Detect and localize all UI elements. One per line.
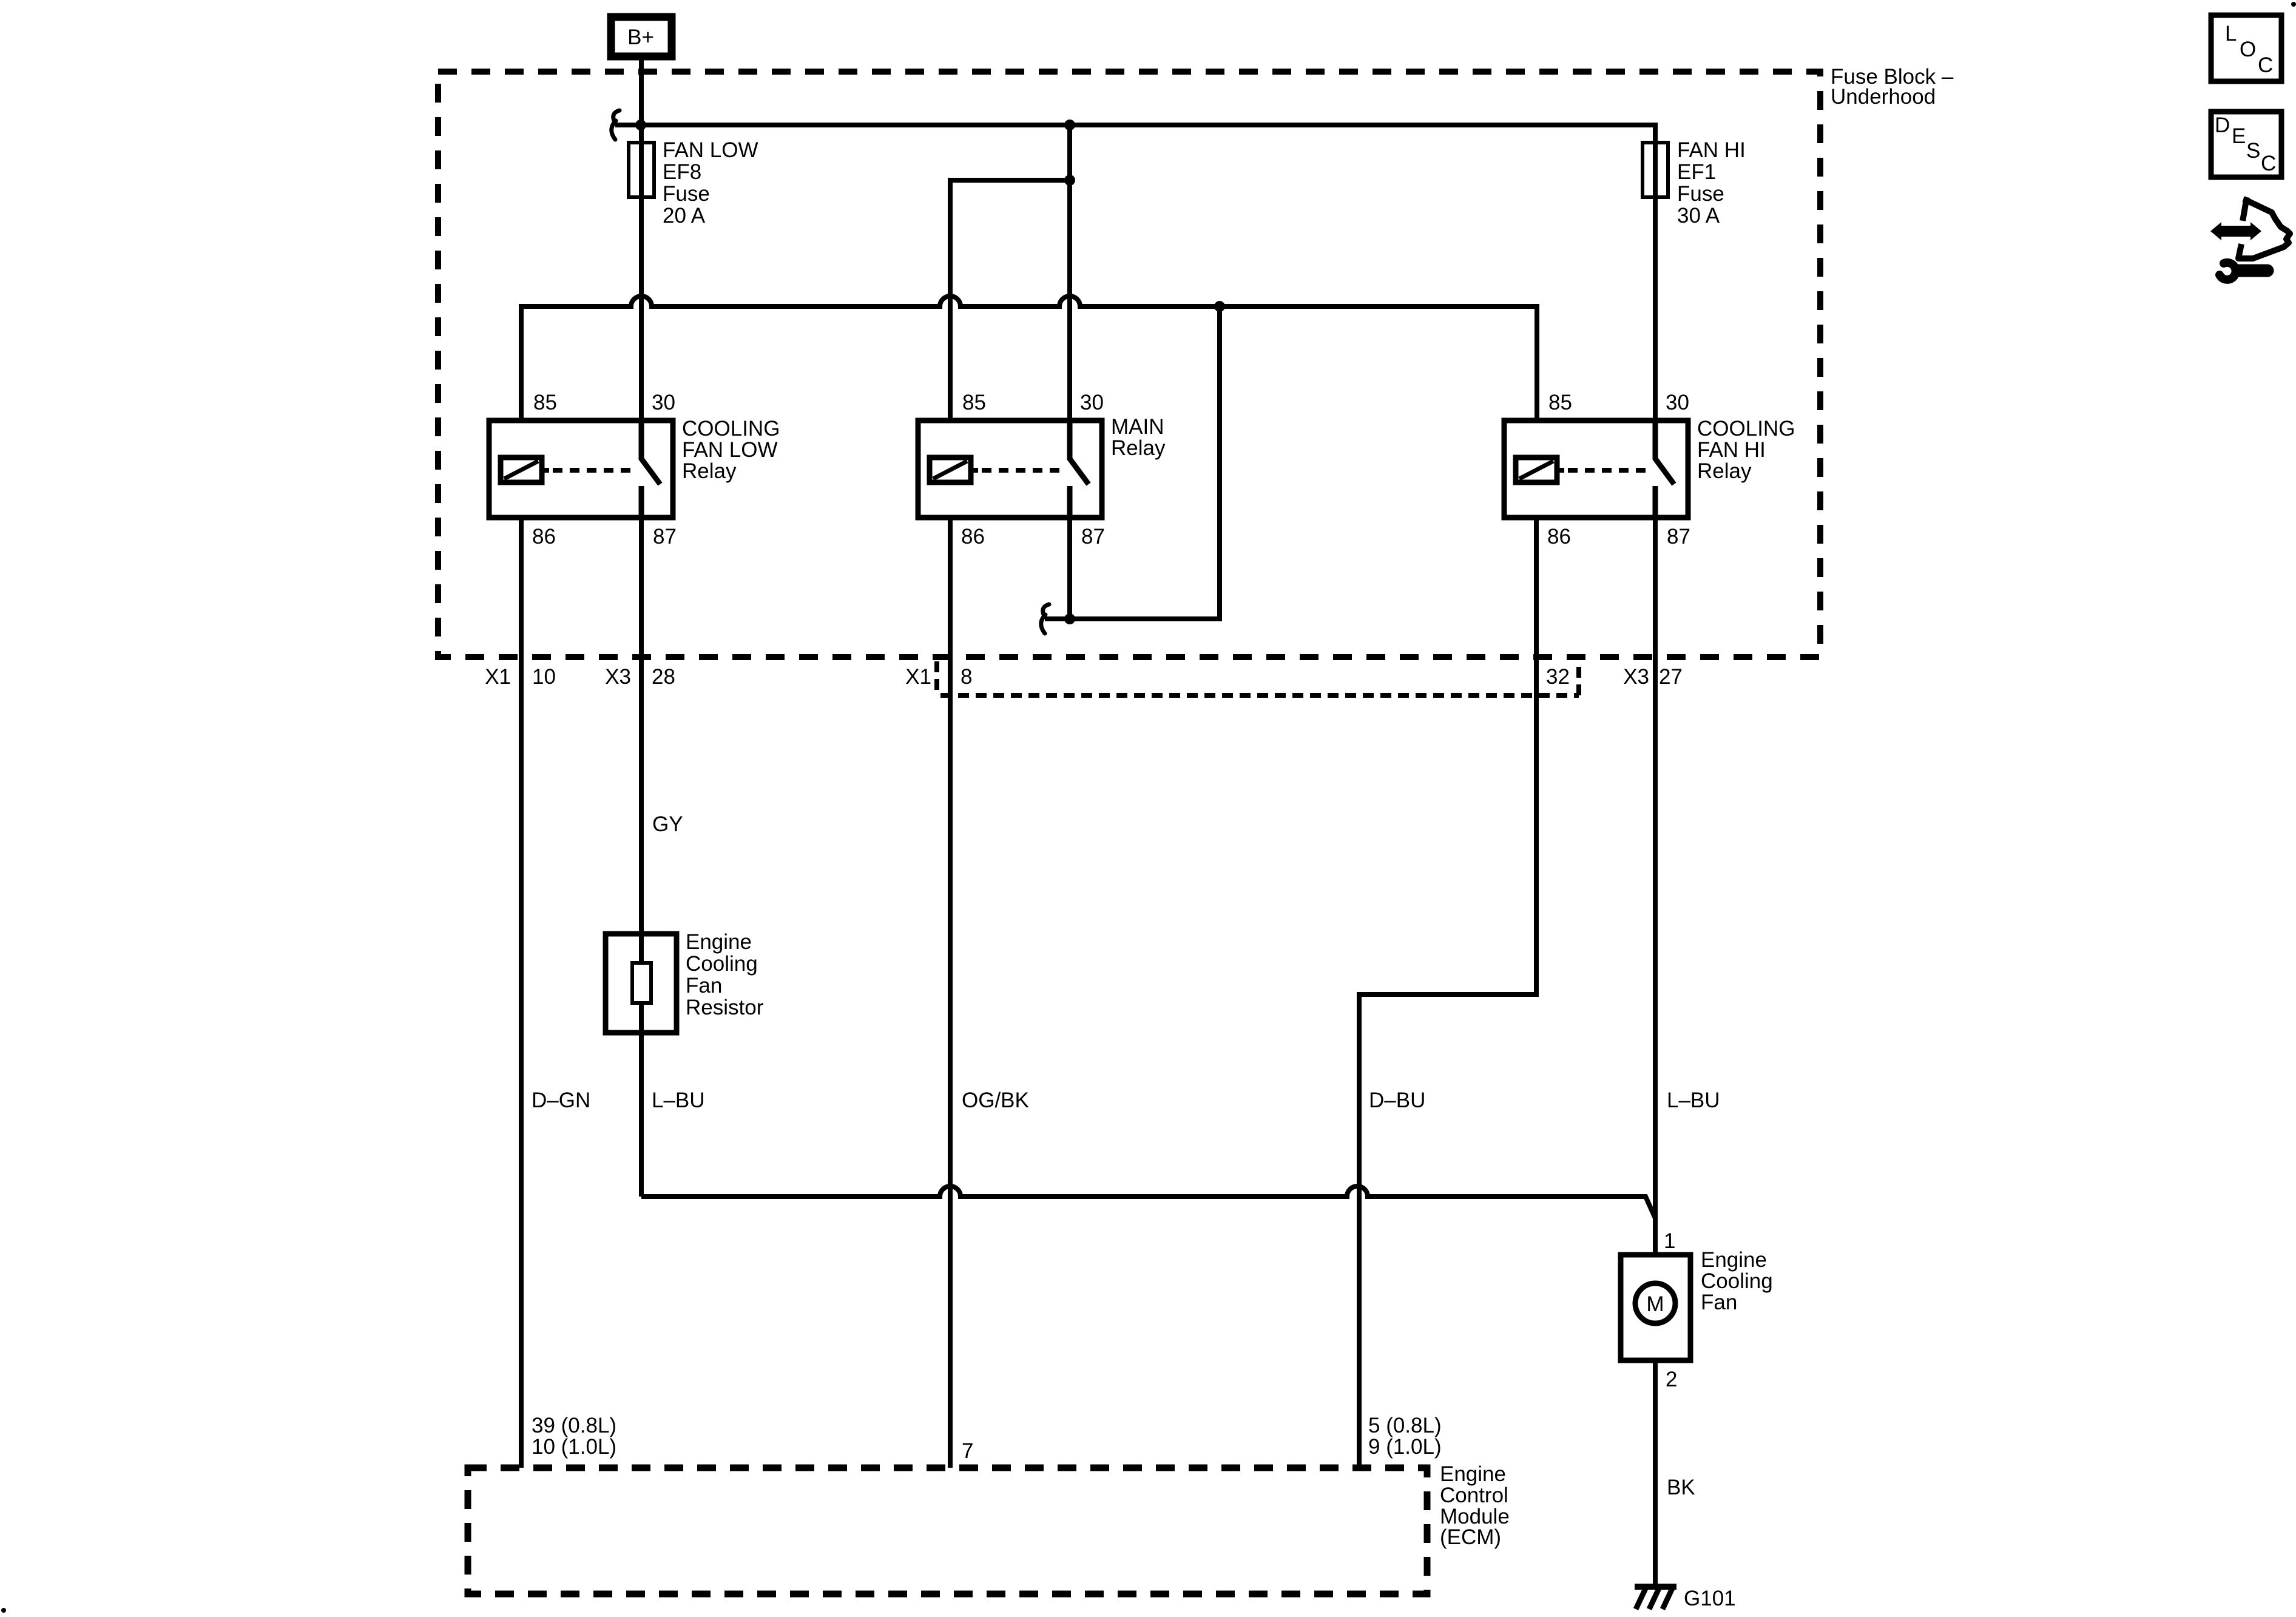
svg-text:Relay: Relay — [1111, 436, 1166, 460]
svg-text:32: 32 — [1546, 665, 1570, 689]
svg-text:86: 86 — [961, 525, 985, 549]
svg-text:Relay: Relay — [682, 459, 737, 483]
wire: B+ down to relay 30 (through fuse EF8) — [639, 60, 644, 420]
svg-text:39 (0.8L): 39 (0.8L) — [532, 1414, 616, 1437]
relay main: coil-to-switch dashed link — [982, 468, 1062, 473]
svg-text:Cooling: Cooling — [1701, 1269, 1773, 1293]
svg-text:X3: X3 — [1623, 665, 1649, 689]
wire: main relay 30 drop from top bus — [1067, 125, 1072, 420]
svg-text:X3: X3 — [605, 665, 631, 689]
node: junction coil bus / main 87 riser — [1214, 301, 1225, 312]
wire: hi relay 87 to fan motor pin 1 (L-BU) — [1653, 518, 1658, 1255]
svg-text:L–BU: L–BU — [652, 1089, 705, 1112]
fuse FAN LOW EF8 20A — [629, 143, 654, 197]
speck artifact top right — [2291, 2, 2296, 7]
connector curl at main 87 junction — [1043, 604, 1049, 615]
node: junction main 87 / stub — [1064, 613, 1075, 624]
node: junction B+ / top bus — [635, 120, 646, 130]
svg-text:Fuse: Fuse — [1677, 182, 1724, 206]
relay cooling fan low: coil-to-switch dashed link — [553, 468, 634, 473]
svg-text:FAN HI: FAN HI — [1677, 138, 1746, 162]
svg-text:GY: GY — [652, 812, 683, 836]
relay cooling fan hi: box — [1504, 420, 1688, 518]
svg-text:D: D — [2215, 113, 2230, 137]
svg-text:27: 27 — [1659, 665, 1683, 689]
svg-text:87: 87 — [1667, 525, 1690, 549]
wire: low relay 87 down to resistor (GY) — [639, 518, 644, 934]
svg-text:87: 87 — [653, 525, 677, 549]
Engine Control Module dashed box — [468, 1468, 1427, 1594]
svg-text:86: 86 — [532, 525, 556, 549]
svg-text:X1: X1 — [485, 665, 511, 689]
svg-text:BK: BK — [1667, 1476, 1695, 1499]
svg-text:EF1: EF1 — [1677, 160, 1716, 184]
wire: low relay 86 to ECM (D-GN) — [519, 518, 524, 1468]
svg-text:86: 86 — [1547, 525, 1571, 549]
relay cooling fan low: box — [489, 420, 673, 518]
wire: main relay 85 riser tied to pin 30 wire — [950, 180, 1070, 420]
svg-text:C: C — [2258, 53, 2273, 77]
svg-text:30: 30 — [1666, 391, 1689, 414]
connector curl at top bus left end — [613, 110, 620, 121]
connector X1 dashed bracket — [934, 661, 939, 695]
relay main: box — [918, 420, 1102, 518]
svg-text:8: 8 — [961, 665, 972, 689]
relay cooling fan hi: switch arm (pin 30 to 87) — [1655, 420, 1674, 484]
svg-text:30 A: 30 A — [1677, 204, 1720, 228]
svg-text:X1: X1 — [905, 665, 931, 689]
svg-text:D–BU: D–BU — [1369, 1089, 1425, 1112]
svg-text:30: 30 — [652, 391, 675, 414]
svg-text:FAN HI: FAN HI — [1697, 438, 1766, 462]
DESC icon box — [2211, 112, 2281, 177]
ground symbol G101 — [1635, 1584, 1676, 1590]
svg-text:10: 10 — [532, 665, 556, 689]
svg-text:Engine: Engine — [1440, 1462, 1506, 1486]
relay cooling fan hi: coil-to-switch dashed link — [1568, 468, 1648, 473]
LOC icon box — [2211, 15, 2281, 81]
wire: top bus from B+ junction to FAN HI fuse — [615, 125, 1655, 420]
svg-text:M: M — [1646, 1292, 1664, 1316]
svg-text:Fan: Fan — [686, 974, 722, 998]
wire: hi relay 86 jog to ECM (D-BU) — [1359, 518, 1536, 1468]
wire: motor pin 2 to ground G101 (BK) — [1653, 1360, 1658, 1584]
svg-text:Fuse: Fuse — [663, 182, 710, 206]
speck artifact bottom left — [1, 1608, 6, 1613]
svg-text:FAN LOW: FAN LOW — [682, 438, 778, 462]
svg-text:EF8: EF8 — [663, 160, 701, 184]
wire: stub to connector curl at main 87 junction — [1045, 616, 1070, 621]
svg-text:O: O — [2240, 38, 2256, 61]
relay main: switch arm (pin 30 to 87) — [1070, 420, 1089, 484]
svg-text:Underhood: Underhood — [1831, 85, 1936, 109]
svg-text:7: 7 — [962, 1439, 973, 1463]
svg-text:G101: G101 — [1684, 1587, 1736, 1610]
double-arrow / part silhouette / wrench icon — [2210, 222, 2261, 240]
svg-text:Cooling: Cooling — [686, 952, 758, 976]
svg-text:10 (1.0L): 10 (1.0L) — [532, 1435, 616, 1459]
svg-text:D–GN: D–GN — [532, 1089, 590, 1112]
engine cooling fan resistor — [606, 934, 677, 1033]
svg-text:B+: B+ — [627, 25, 654, 49]
svg-text:5 (0.8L): 5 (0.8L) — [1368, 1414, 1442, 1437]
svg-text:9 (1.0L): 9 (1.0L) — [1368, 1435, 1442, 1459]
svg-text:Engine: Engine — [1701, 1248, 1767, 1272]
wire: coil bus from low relay 85 to hi relay 85 with hops — [521, 296, 1537, 420]
svg-text:Engine: Engine — [686, 930, 752, 954]
svg-text:28: 28 — [652, 665, 675, 689]
svg-text:COOLING: COOLING — [682, 417, 780, 441]
svg-text:85: 85 — [1548, 391, 1572, 414]
svg-text:20 A: 20 A — [663, 204, 706, 228]
svg-text:Relay: Relay — [1697, 459, 1752, 483]
node: junction wire B / main 30 wire — [1064, 175, 1075, 186]
svg-text:Fan: Fan — [1701, 1291, 1737, 1314]
svg-text:2: 2 — [1666, 1368, 1677, 1391]
wire: main relay 86 to ECM pin 7 (OG/BK) — [948, 518, 953, 1468]
svg-text:MAIN: MAIN — [1111, 415, 1164, 439]
fuse FAN HI EF1 30A — [1643, 143, 1668, 197]
svg-text:85: 85 — [962, 391, 986, 414]
svg-text:85: 85 — [533, 391, 557, 414]
wire: fan bus from resistor to motor pin 1 with hops — [641, 1186, 1656, 1220]
node: junction top bus / main relay 30 — [1064, 120, 1075, 130]
svg-text:Resistor: Resistor — [686, 996, 764, 1019]
svg-text:E: E — [2232, 124, 2246, 148]
svg-text:30: 30 — [1080, 391, 1104, 414]
svg-text:87: 87 — [1081, 525, 1105, 549]
svg-text:C: C — [2261, 152, 2276, 175]
svg-text:S: S — [2246, 139, 2260, 163]
svg-text:L–BU: L–BU — [1667, 1089, 1720, 1112]
wire: main relay 87 to coil bus riser — [1070, 306, 1220, 619]
relay main: coil — [930, 457, 971, 482]
B+ battery feed box — [611, 17, 672, 56]
relay cooling fan hi: coil — [1516, 457, 1557, 482]
svg-text:COOLING: COOLING — [1697, 417, 1795, 441]
wire: resistor to fan bus (L-BU) — [639, 1033, 644, 1197]
svg-text:Control: Control — [1440, 1484, 1508, 1507]
relay cooling fan low: coil — [501, 457, 542, 482]
svg-text:OG/BK: OG/BK — [962, 1089, 1029, 1112]
Fuse Block - Underhood dashed boundary — [438, 72, 1820, 657]
svg-text:FAN LOW: FAN LOW — [663, 138, 758, 162]
svg-text:1: 1 — [1664, 1229, 1675, 1253]
svg-text:(ECM): (ECM) — [1440, 1525, 1501, 1549]
svg-text:L: L — [2225, 22, 2237, 46]
relay cooling fan low: switch arm (pin 30 to 87) — [641, 420, 660, 484]
